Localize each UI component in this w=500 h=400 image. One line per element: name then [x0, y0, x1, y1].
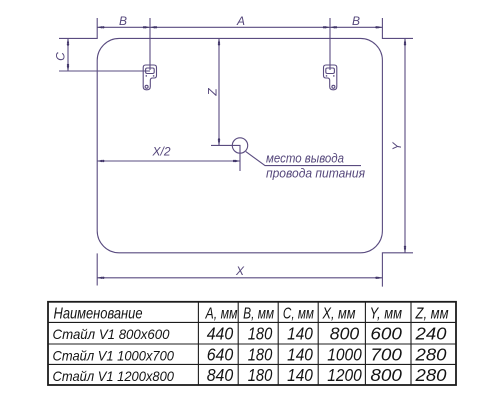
svg-text:A, мм: A, мм: [205, 305, 238, 322]
svg-text:B: B: [352, 14, 360, 28]
svg-text:C, мм: C, мм: [283, 305, 314, 322]
svg-text:Стайл V1 800x600: Стайл V1 800x600: [53, 326, 170, 342]
svg-text:140: 140: [287, 323, 313, 343]
svg-text:180: 180: [248, 323, 273, 343]
svg-text:640: 640: [207, 345, 234, 365]
svg-text:место вывода: место вывода: [266, 151, 344, 166]
svg-text:240: 240: [414, 323, 446, 343]
svg-text:Y, мм: Y, мм: [370, 305, 402, 322]
svg-text:A: A: [236, 14, 245, 28]
svg-text:Стайл V1 1000x700: Стайл V1 1000x700: [53, 348, 175, 364]
svg-text:440: 440: [207, 323, 234, 343]
svg-text:X: X: [235, 264, 245, 278]
svg-text:Наименование: Наименование: [54, 305, 143, 322]
svg-text:провода питания: провода питания: [266, 166, 365, 181]
svg-text:Z, мм: Z, мм: [415, 305, 449, 322]
svg-text:B: B: [119, 14, 127, 28]
svg-text:280: 280: [414, 365, 446, 385]
svg-text:Z: Z: [206, 88, 220, 97]
svg-text:700: 700: [370, 345, 402, 365]
svg-text:1000: 1000: [327, 345, 362, 365]
svg-text:X/2: X/2: [151, 145, 170, 159]
svg-text:140: 140: [287, 365, 313, 385]
svg-text:B, мм: B, мм: [243, 305, 274, 322]
svg-text:280: 280: [414, 345, 446, 365]
svg-text:X, мм: X, мм: [322, 305, 356, 322]
svg-text:800: 800: [330, 323, 360, 343]
svg-text:C: C: [54, 52, 68, 61]
svg-text:600: 600: [370, 323, 402, 343]
svg-text:840: 840: [207, 365, 234, 385]
svg-text:180: 180: [248, 345, 273, 365]
svg-text:180: 180: [248, 365, 273, 385]
svg-text:Стайл V1 1200x800: Стайл V1 1200x800: [53, 368, 175, 384]
svg-text:800: 800: [370, 365, 402, 385]
svg-text:Y: Y: [390, 142, 404, 151]
svg-text:140: 140: [287, 345, 313, 365]
svg-text:1200: 1200: [327, 365, 362, 385]
